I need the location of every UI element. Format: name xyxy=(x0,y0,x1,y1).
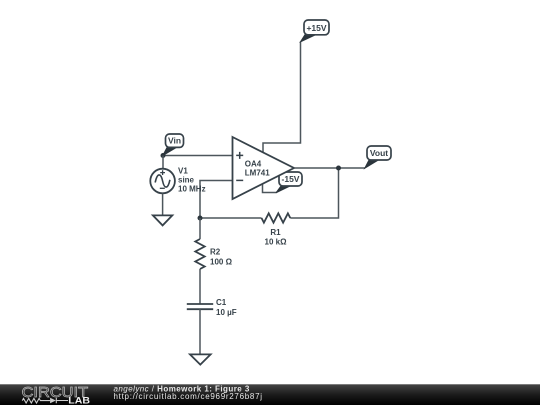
footer bar xyxy=(0,384,540,405)
net label Vout xyxy=(365,146,391,168)
svg-text:R2: R2 xyxy=(210,248,221,257)
wire V1 top xyxy=(162,156,164,170)
svg-text:10 µF: 10 µF xyxy=(216,308,237,317)
wire - input xyxy=(200,181,233,219)
net label -15V xyxy=(276,172,302,193)
wire V- supply xyxy=(263,184,277,193)
net label +15V xyxy=(301,20,330,42)
svg-text:+15V: +15V xyxy=(306,23,326,33)
svg-text:R1: R1 xyxy=(270,228,281,237)
svg-text:LM741: LM741 xyxy=(245,169,270,178)
svg-text:100 Ω: 100 Ω xyxy=(210,258,233,267)
svg-text:Vout: Vout xyxy=(370,148,388,158)
wire R2 top xyxy=(199,218,201,239)
resistor R1 xyxy=(262,213,291,246)
svg-text:OA4: OA4 xyxy=(245,160,262,169)
svg-text:http://circuitlab.com/ce969r27: http://circuitlab.com/ce969r276b87j xyxy=(114,392,263,401)
wire R1 left xyxy=(200,217,262,219)
svg-text:C1: C1 xyxy=(216,298,227,307)
wire feedback vertical xyxy=(290,168,338,218)
voltage source V1 xyxy=(150,167,205,194)
node inverting junction xyxy=(198,216,203,221)
svg-text:sine: sine xyxy=(178,176,195,185)
wire R2 to C1 xyxy=(199,269,201,304)
node output junction xyxy=(336,166,341,171)
svg-text:-15V: -15V xyxy=(282,174,300,184)
CircuitLab logo xyxy=(22,385,91,405)
svg-text:Vin: Vin xyxy=(168,136,181,146)
wire + input xyxy=(163,155,233,157)
svg-text:10 MHz: 10 MHz xyxy=(178,185,206,194)
svg-text:V1: V1 xyxy=(178,167,188,176)
wire V+ supply xyxy=(263,42,301,153)
resistor R2 xyxy=(195,239,232,269)
ground C1 xyxy=(190,354,211,364)
ground V1 xyxy=(153,215,172,225)
wire output xyxy=(294,167,365,169)
wire V1 bottom xyxy=(162,193,164,215)
node Vin junction xyxy=(161,153,166,158)
net label Vin xyxy=(163,134,184,156)
svg-text:LAB: LAB xyxy=(68,396,90,405)
capacitor C1 xyxy=(187,298,237,317)
op-amp OA4 LM741 xyxy=(233,137,295,199)
wire C1 bottom xyxy=(199,309,201,354)
svg-text:10 kΩ: 10 kΩ xyxy=(265,238,288,247)
